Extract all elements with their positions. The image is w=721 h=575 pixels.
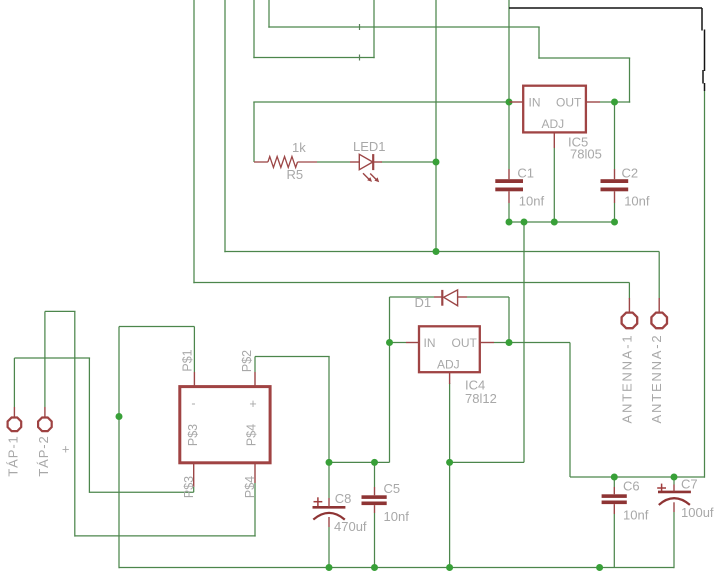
- wire D1 right drop to OUT junction: [508, 297, 510, 343]
- IC5 pin IN stub: [510, 101, 524, 103]
- wire vertical x=269 top: [268, 0, 270, 28]
- junction rail C2: [611, 219, 618, 226]
- svg-text:TÁP-1: TÁP-1: [5, 435, 20, 476]
- svg-text:78l05: 78l05: [570, 147, 602, 162]
- wire horizontal P$1 y=326.5: [119, 326, 194, 328]
- junction IN of IC4: [386, 339, 393, 346]
- wire right-edge vertical x=704.5: [704, 91, 706, 478]
- wire P$3 lower lead: [193, 487, 195, 492]
- wire D1 left: [390, 296, 435, 298]
- capacitor C6: [602, 494, 627, 504]
- wire rail y=462 left part C8 C5: [329, 461, 390, 463]
- junction C5 bottom: [371, 564, 378, 571]
- wire vertical drop to ANTENNA-1: [628, 283, 630, 299]
- pin tick at x=359.5 y=57.5: [359, 55, 361, 61]
- wire vertical drop to ANTENNA-2: [658, 252, 660, 299]
- bridge rectifier box: [180, 387, 270, 463]
- C8 plus sign: [314, 497, 323, 506]
- svg-text:10nf: 10nf: [624, 193, 650, 208]
- svg-text:R5: R5: [287, 167, 304, 182]
- black net vertical segment 2: [704, 30, 706, 72]
- pad ANTENNA-1: [628, 298, 630, 313]
- wire horizontal y=27: [268, 26, 539, 28]
- junction ADJ IC4 bottom: [446, 564, 453, 571]
- wire horizontal y=358: [14, 357, 90, 359]
- resistor R5: [254, 157, 317, 168]
- pad ANTENNA-2: [658, 298, 660, 313]
- junction at LED1 cathode: [433, 159, 440, 166]
- wire horizontal y=57.5 between x=254 and x=374: [253, 57, 374, 59]
- bridge pin P$2 stub: [254, 372, 256, 387]
- wire D1 right: [467, 296, 509, 298]
- LED D1 LED1: [350, 154, 382, 182]
- wire vertical x=436 top: [435, 0, 437, 252]
- wire TAP-2 riser: [44, 311, 46, 407]
- wire OUT of IC4 to x=570: [494, 342, 570, 344]
- wire C6 bottom lead: [613, 514, 615, 568]
- wire TAP-1 riser: [13, 358, 15, 407]
- diode D1: [434, 290, 467, 306]
- wire horizontal y=477 C6 C7 top: [570, 476, 705, 478]
- wire vertical x=570 from OUT of IC4: [569, 343, 571, 478]
- svg-text:ADJ: ADJ: [437, 357, 460, 371]
- black net vertical segment 3: [702, 70, 704, 84]
- op-amp regulator IC4 box: [419, 326, 480, 372]
- op-amp regulator IC5 box: [523, 86, 586, 133]
- junction C8 top: [326, 459, 333, 466]
- wire ADJ of IC4 down to bottom rail: [449, 383, 451, 568]
- wire horizontal y=535.9: [75, 535, 256, 537]
- wire C5 bottom lead: [374, 513, 376, 568]
- wire C8 top lead: [328, 462, 330, 498]
- svg-text:+: +: [249, 397, 256, 411]
- svg-text:IN: IN: [424, 336, 436, 350]
- junction C5 top: [371, 459, 378, 466]
- LED1 arrows: [363, 173, 370, 180]
- wire vertical x=194 top to antenna-1 net: [193, 0, 195, 283]
- wire LED1 to junction: [382, 161, 436, 163]
- svg-text:10nf: 10nf: [623, 508, 649, 523]
- junction rail x=524: [521, 219, 528, 226]
- wire C5 top lead: [374, 462, 376, 487]
- IC4 pin IN stub: [406, 342, 419, 344]
- wire C7 bottom lead: [673, 512, 675, 568]
- wire vertical x=254 top: [253, 0, 255, 58]
- svg-text:C8: C8: [335, 491, 352, 506]
- wire horizontal OUT of IC5: [600, 101, 630, 103]
- svg-text:C5: C5: [384, 481, 401, 496]
- wire vertical x=374 top: [373, 0, 375, 58]
- C7 top plate: [658, 491, 691, 494]
- svg-text:470uf: 470uf: [334, 519, 367, 534]
- junction C6 top: [611, 474, 618, 481]
- svg-text:C6: C6: [623, 479, 640, 494]
- C1 leads: [508, 169, 510, 179]
- wire C2 bottom to rail: [614, 203, 616, 222]
- IC5 pin ADJ stub: [553, 132, 555, 148]
- wire P$4 drop: [254, 483, 256, 537]
- wire IN of IC5 down to C1: [508, 102, 510, 169]
- bridge pin P$3 stub: [193, 463, 195, 487]
- wire vertical x=629.5 to OUT of IC5: [629, 58, 631, 103]
- C8 leads: [328, 498, 330, 507]
- C7 plus sign: [657, 484, 666, 493]
- svg-text:P$3: P$3: [182, 476, 196, 498]
- C2 leads: [614, 169, 616, 179]
- wire vertical x=254 drop to R5: [253, 102, 255, 162]
- svg-text:C2: C2: [622, 166, 639, 181]
- junction C8 bottom: [326, 564, 333, 571]
- wire D1 left drop to IN junction: [389, 297, 391, 343]
- capacitor C1: [495, 179, 523, 191]
- svg-text:OUT: OUT: [556, 96, 582, 110]
- junction x=436 y=251.5: [433, 248, 440, 255]
- junction OUT of IC5: [611, 99, 618, 106]
- wire ADJ of IC5 down to rail: [553, 148, 555, 222]
- C7 leads: [673, 485, 675, 492]
- wire horizontal P$2 to x=329: [255, 356, 330, 358]
- svg-text:LED1: LED1: [353, 139, 386, 154]
- wire OUT junction down to C2: [614, 102, 616, 169]
- C8 curved plate: [313, 513, 345, 520]
- junction C7 top: [671, 474, 678, 481]
- svg-text:10nf: 10nf: [519, 193, 545, 208]
- bridge pin P$1 stub: [193, 372, 195, 387]
- wire horizontal y=58: [538, 57, 630, 59]
- wire vertical x=539: [538, 27, 540, 59]
- pad TAP-1: [13, 407, 15, 417]
- svg-text:C7: C7: [681, 476, 698, 491]
- svg-text:-: -: [191, 397, 195, 411]
- wire horizontal y=492.2 to P$3: [89, 491, 193, 493]
- svg-text:P$4: P$4: [243, 476, 257, 498]
- wire C8 bottom lead: [328, 527, 330, 568]
- wire rail y=222 under IC5: [509, 221, 615, 223]
- svg-text:P$1: P$1: [180, 349, 194, 371]
- bridge pin P$4 stub: [254, 463, 256, 483]
- svg-text:IN: IN: [529, 96, 541, 110]
- svg-text:ANTENNA-1: ANTENNA-1: [619, 334, 634, 424]
- wire C7 top lead: [673, 477, 675, 485]
- pad TAP-2: [44, 407, 46, 417]
- black net horizontal y=8: [509, 7, 702, 9]
- svg-text:ADJ: ADJ: [542, 117, 565, 131]
- C7 curved plate: [659, 498, 690, 505]
- wire vertical x=89.4: [88, 358, 90, 493]
- wire vertical x=74.8: [74, 311, 76, 536]
- C6 leads: [613, 487, 615, 494]
- svg-text:P$4: P$4: [244, 424, 258, 446]
- junction x=119 y=416.5: [116, 413, 123, 420]
- wire rail y=462 right part: [450, 461, 524, 463]
- wire horizontal y=102 R5 row top to IN of IC5: [253, 101, 509, 103]
- wire horizontal y=282.5 to ANTENNA-1 drop: [193, 282, 629, 284]
- svg-text:ANTENNA-2: ANTENNA-2: [649, 334, 664, 424]
- svg-text:OUT: OUT: [452, 336, 478, 350]
- svg-text:10nf: 10nf: [384, 509, 410, 524]
- junction rail ADJ IC5: [551, 219, 558, 226]
- pin tick at x=359.5 y=27: [359, 24, 361, 30]
- wire vertical x=119: [118, 327, 120, 569]
- black net vertical segment 1: [701, 8, 703, 31]
- wire P$2 pin riser: [254, 357, 256, 373]
- junction rail C1: [506, 219, 513, 226]
- C8 top plate: [313, 506, 346, 509]
- wire vertical x=329 from P$2 wire: [328, 357, 330, 463]
- svg-text:+: +: [62, 442, 70, 457]
- wire R5 to LED1: [317, 161, 350, 163]
- IC5 pin OUT stub: [586, 101, 600, 103]
- svg-text:D1: D1: [415, 295, 432, 310]
- wire IN junction to IC4: [390, 342, 407, 344]
- wire IN junction down to y=462 rail: [389, 343, 391, 463]
- black net vertical segment 4: [704, 83, 706, 91]
- wire vertical x=509 top to IN of IC5: [508, 0, 510, 102]
- junction bottom rail x=599.6: [596, 564, 603, 571]
- IC4 pin OUT stub: [480, 342, 494, 344]
- svg-text:P$2: P$2: [240, 350, 254, 372]
- wire bottom rail y=567.5: [119, 567, 674, 569]
- junction IN of IC5: [506, 99, 513, 106]
- wire vertical x=524 rail to y=462 rail: [523, 222, 525, 462]
- svg-text:P$3: P$3: [186, 424, 200, 446]
- wire horizontal y=251.5 LED row bottom to ANTENNA-2 drop: [224, 251, 659, 253]
- svg-text:TÁP-2: TÁP-2: [36, 435, 51, 476]
- IC4 pin ADJ stub: [449, 372, 451, 384]
- svg-text:1k: 1k: [292, 140, 306, 155]
- C5 leads: [374, 487, 376, 495]
- svg-text:78l12: 78l12: [465, 391, 497, 406]
- svg-text:C1: C1: [517, 166, 534, 181]
- wire horizontal y=311.4: [45, 310, 76, 312]
- wire C6 top lead: [613, 477, 615, 487]
- junction ADJ IC4 y=462: [446, 459, 453, 466]
- wire C1 bottom to rail: [508, 203, 510, 222]
- junction OUT of IC4: [506, 339, 513, 346]
- wire vertical x=225 top: [224, 0, 226, 252]
- capacitor C2: [601, 179, 629, 191]
- svg-text:100uf: 100uf: [681, 505, 714, 520]
- capacitor C5: [362, 495, 387, 505]
- wire P$1 drop to bridge: [193, 327, 195, 373]
